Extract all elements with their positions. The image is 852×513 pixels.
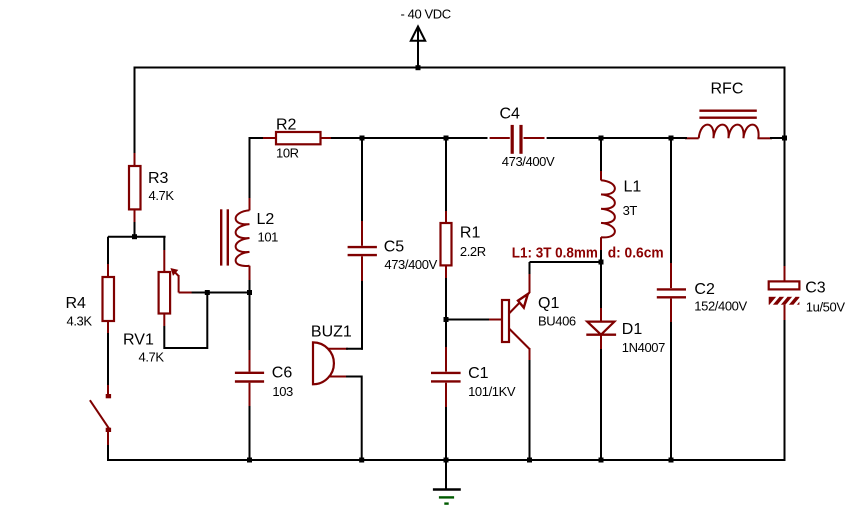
node R1 top junction	[444, 136, 449, 141]
wire C2 to bus	[670, 322, 672, 460]
wire RV1 wiper horizontal	[192, 292, 250, 294]
wire R1 to base junction	[445, 278, 447, 347]
wire R2 left to L2	[250, 138, 266, 200]
wire collector horizontal	[530, 261, 602, 263]
svg-text:C6: C6	[272, 365, 293, 382]
wire D1 top lead	[600, 262, 602, 309]
wire base wire	[446, 319, 491, 321]
wire RFC left lead	[671, 137, 687, 139]
wire BUZ1 top terminal	[346, 348, 363, 350]
capacitor C2	[657, 263, 686, 322]
capacitor C4	[490, 125, 545, 154]
node L1 top junction	[599, 136, 604, 141]
node bus C2 junction	[669, 458, 674, 463]
wire R1 rail	[445, 138, 447, 212]
wire C6 to bus	[249, 406, 251, 460]
capacitor C3 electrolytic	[769, 266, 803, 320]
svg-text:d: 0.6cm: d: 0.6cm	[608, 245, 664, 262]
node bus BUZ1 junction	[359, 458, 364, 463]
node bus D1 junction	[599, 458, 604, 463]
node C5 top junction	[360, 136, 365, 141]
wire switch to bottom bus	[107, 445, 109, 460]
wire collector up	[529, 262, 531, 274]
capacitor C6	[235, 350, 264, 406]
wire R4 to switch	[107, 333, 109, 385]
svg-text:RV1: RV1	[123, 332, 154, 349]
wire left rail R3 branch	[134, 67, 136, 237]
svg-text:L1: L1	[624, 179, 642, 196]
node collector L1 junction	[599, 260, 604, 265]
svg-text:152/400V: 152/400V	[694, 299, 747, 314]
wire bottom bus	[107, 459, 786, 461]
svg-text:2.2R: 2.2R	[460, 244, 486, 259]
node L2 bottom junction	[247, 290, 252, 295]
inductor RFC	[685, 111, 772, 139]
svg-text:L2: L2	[257, 211, 275, 228]
wire C5 to BUZ1	[361, 281, 363, 350]
wire C1 to bus	[445, 407, 447, 460]
svg-text:1N4007: 1N4007	[622, 340, 665, 355]
svg-text:C3: C3	[805, 280, 826, 297]
svg-text:R4: R4	[66, 295, 87, 312]
node bus C6 junction	[247, 458, 252, 463]
node C2 top junction	[669, 136, 674, 141]
wire L1 top lead	[600, 138, 602, 172]
svg-text:RFC: RFC	[711, 81, 744, 98]
wire L1 bottom lead	[600, 250, 602, 262]
capacitor C5	[348, 221, 377, 281]
svg-text:BUZ1: BUZ1	[311, 324, 352, 341]
wire RV1 rail top	[163, 237, 165, 250]
inductor L1	[601, 171, 615, 250]
svg-text:C2: C2	[694, 281, 715, 298]
svg-text:R3: R3	[148, 170, 169, 187]
svg-text:4.3K: 4.3K	[67, 314, 93, 329]
wire right rail top	[784, 67, 786, 268]
svg-text:473/400V: 473/400V	[384, 257, 437, 272]
wire mid bus R2 to C4	[331, 137, 488, 139]
svg-text:4.7K: 4.7K	[149, 188, 175, 203]
resistor R3	[129, 153, 141, 222]
wire mid bus C4 to L1	[547, 137, 671, 139]
wire L2 to C6	[249, 280, 251, 350]
svg-text:C1: C1	[468, 365, 489, 382]
potentiometer RV1	[159, 250, 193, 326]
svg-text:D1: D1	[622, 321, 643, 338]
svg-text:R1: R1	[460, 225, 481, 242]
transistor Q1	[489, 273, 530, 361]
ground	[433, 460, 461, 504]
power flag - 40 VDC	[411, 27, 425, 68]
wire R4 rail	[107, 237, 109, 277]
node VDC junction	[416, 65, 421, 70]
svg-text:101/1KV: 101/1KV	[468, 384, 516, 399]
wire C5 rail	[361, 138, 363, 222]
wire top bus	[135, 67, 785, 69]
inductor L2	[221, 198, 249, 280]
switch SW (open)	[90, 385, 111, 445]
svg-text:Q1: Q1	[538, 295, 559, 312]
svg-text:473/400V: 473/400V	[502, 154, 555, 169]
svg-text:C4: C4	[500, 106, 521, 123]
wire R3 bottom horizontal	[108, 236, 166, 238]
wire C2 rail top	[670, 138, 672, 264]
svg-text:3T: 3T	[623, 203, 638, 218]
node bus emitter junction	[527, 458, 532, 463]
node R3 bottom junction	[132, 234, 137, 239]
svg-text:- 40 VDC: - 40 VDC	[401, 7, 451, 22]
wire BUZ1 bottom terminal to bus	[346, 377, 362, 461]
svg-text:103: 103	[272, 384, 293, 399]
node RFC right junction	[782, 136, 787, 141]
wire RV1 bottom loop	[164, 293, 207, 349]
svg-text:10R: 10R	[276, 146, 299, 161]
svg-text:C5: C5	[384, 239, 405, 256]
svg-text:R2: R2	[276, 116, 297, 133]
resistor R2	[263, 132, 333, 144]
buzzer BUZ1	[313, 342, 348, 384]
resistor R1	[441, 211, 452, 278]
wire emitter down	[529, 360, 531, 460]
node bus ground junction	[444, 458, 449, 463]
svg-text:1u/50V: 1u/50V	[806, 300, 846, 315]
node base junction	[444, 317, 449, 322]
wire D1 to bus	[600, 349, 602, 460]
node wiper junction	[205, 290, 210, 295]
wire C3 to bus	[784, 320, 786, 461]
resistor R4	[103, 264, 115, 333]
svg-text:BU406: BU406	[538, 313, 576, 328]
wire RFC right lead	[770, 137, 785, 139]
svg-text:101: 101	[258, 229, 279, 244]
svg-text:L1: 3T 0.8mm: L1: 3T 0.8mm	[512, 245, 598, 262]
capacitor C1	[431, 347, 461, 407]
svg-text:4.7K: 4.7K	[139, 350, 165, 365]
diode D1	[586, 308, 616, 349]
